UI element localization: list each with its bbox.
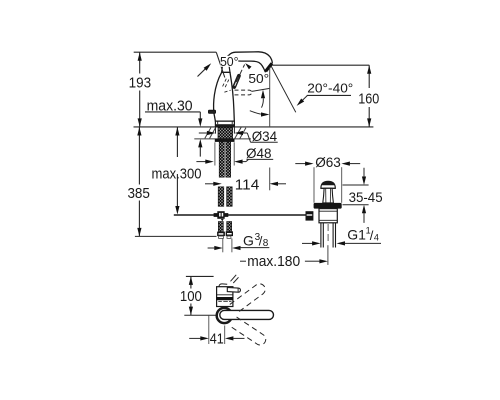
drain plug cap [321,181,335,188]
top view: grip ring [217,308,232,323]
faucet spout (curved) [226,52,272,72]
hose end nuts [217,232,225,237]
50 deg #2 leader arrow [236,65,244,83]
top view: spout tube (solid position) [220,310,274,319]
faucet base plinth [215,121,234,127]
dimension 114 [205,176,286,193]
dimension diam 34 [199,128,278,144]
flexible hoses lower [218,222,223,232]
deck hatch left [205,128,216,139]
spout outlet face (aerator, thick) [266,63,272,71]
drain body [319,209,337,223]
385 bottom reference line (hose ends) [135,235,217,237]
top reference line (spout height) [134,51,217,53]
flexible hoses upper [218,187,224,207]
rod pivot knob (left of drain) [306,211,314,220]
svg-text:100: 100 [180,288,202,305]
svg-text:G1: G1 [347,227,366,243]
stream angle diagonal [271,66,296,112]
spout swung down (dashed) [230,317,265,345]
dimension 193 [129,52,152,127]
swing ticks [231,275,237,282]
pop-up rod [174,214,306,216]
svg-text:4: 4 [374,232,379,242]
threaded shank upper (wide) [218,127,233,138]
dimension 41 [189,316,244,348]
svg-text:8: 8 [263,238,269,249]
mounting washer plate [215,139,235,142]
lever lift arc with up arrow [261,90,265,99]
svg-text:41: 41 [210,331,224,348]
swivel arc with right arrow [250,111,261,114]
drain centerline [327,224,329,243]
dimension G1 1/4 [302,225,381,245]
rod cross fitting [217,211,224,219]
threaded shank lower (two strips) [219,142,224,177]
spout outlet vertical reference line [269,67,271,127]
svg-text:Ø34: Ø34 [252,128,278,144]
svg-text:G: G [243,232,254,248]
dimension max.180 [240,245,328,270]
svg-text:50°: 50° [220,54,239,69]
faucet neck [222,59,230,73]
100 top reference line [186,275,214,277]
20-40 deg leader [299,95,308,103]
pop-up pull rod knob (left of body) [208,110,215,113]
pop-up waste drain: dim diam 63 [295,154,360,203]
svg-text:114: 114 [235,176,260,193]
dimension max.30 [145,97,202,156]
top view: body [216,284,233,307]
mounting hole edges in deck [215,127,217,134]
label 50 deg #1 [220,54,239,69]
svg-text:193: 193 [129,75,152,92]
top view: lever cylinder [227,288,240,293]
svg-text:385: 385 [127,185,150,202]
hose nut stubs [219,236,224,238]
lever handle (closed position) [234,76,239,87]
svg-text:Ø63: Ø63 [315,154,341,170]
dimension 100 [180,276,202,315]
svg-text:max.300: max.300 [152,165,202,182]
counter deck bottom line [194,138,251,140]
50 deg #1 angle line (lever axis) [216,52,225,77]
dimension 160 [358,65,379,127]
svg-text:35-45: 35-45 [349,189,383,205]
svg-text:Ø48: Ø48 [246,145,272,161]
counter deck top line [134,126,374,128]
svg-text:max.180: max.180 [247,253,300,270]
drain plug neck [323,188,334,203]
spout axis reference line [184,314,216,316]
svg-text:160: 160 [358,91,379,108]
line from open lever to spout axis [252,88,270,91]
dimension diam 48 [196,142,273,165]
50 deg #1 leader arrow [198,68,207,76]
drain tailpipe [321,223,336,248]
svg-text:50°: 50° [248,71,269,86]
faucet body (vase) [214,72,235,121]
spout swung up (dashed) [230,284,265,314]
outlet level horizontal line [272,64,369,66]
drain flange (dark) [314,203,342,209]
deck hatch right [235,127,246,138]
hidden cartridge dashes [223,78,231,92]
dimension max.300 [152,127,202,215]
lever open position (dashed) [235,90,252,95]
dimension 35-45 [343,168,383,223]
svg-text:20°-40°: 20°-40° [307,80,353,95]
dimension 385 [127,127,150,236]
dimension G 3/8 [208,232,270,253]
